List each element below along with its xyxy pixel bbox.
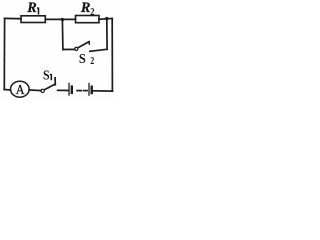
switch S1 fixed contact post xyxy=(54,78,56,85)
wire right vertical xyxy=(111,19,113,92)
wire ammeter to switch S1 xyxy=(29,89,41,92)
node junction left of R2 xyxy=(61,18,64,21)
switch S2 fixed contact tick xyxy=(88,42,90,45)
battery cell1 long plate xyxy=(68,83,70,95)
battery cell2 short plate xyxy=(90,87,92,93)
wire battery dash 1 xyxy=(77,90,81,92)
switch S1 contact circle xyxy=(41,89,44,92)
wire S2-branch bottom-left segment xyxy=(63,48,75,50)
node junction right of R2 xyxy=(105,17,108,20)
svg-text:2: 2 xyxy=(90,6,94,18)
svg-text:R: R xyxy=(26,0,37,16)
svg-text:S: S xyxy=(79,50,86,66)
wire battery to bottom-right corner xyxy=(93,90,113,92)
wire R2 to top-right corner xyxy=(99,18,112,21)
switch S1 lever xyxy=(44,84,54,90)
battery cell1 short plate xyxy=(71,87,73,93)
wire R1 to R2 xyxy=(45,18,75,20)
wire S2-branch right vertical xyxy=(106,19,108,50)
wire S2-branch left vertical xyxy=(61,20,64,50)
wire top-left segment xyxy=(5,17,21,19)
svg-text:S: S xyxy=(43,67,50,83)
wire S1 to battery xyxy=(58,89,69,91)
svg-text:2: 2 xyxy=(90,55,94,66)
ammeter A xyxy=(10,81,29,97)
resistor R1 xyxy=(21,16,45,23)
wire left vertical xyxy=(3,18,5,89)
svg-text:R: R xyxy=(80,0,91,16)
wire battery dash 2 xyxy=(84,90,87,92)
switch S2 lever xyxy=(78,42,89,48)
resistor R2 xyxy=(76,16,100,23)
wire S2-branch bottom-right segment xyxy=(90,49,107,51)
wire bottom-left to ammeter xyxy=(4,89,10,92)
switch S2 contact circle xyxy=(75,47,78,50)
battery cell2 long plate xyxy=(88,84,90,96)
svg-text:A: A xyxy=(16,81,25,97)
